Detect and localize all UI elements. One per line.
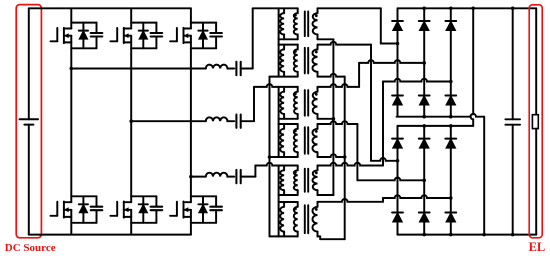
transistor Q2 (MOSFET with gate at left) (51, 196, 72, 223)
capacitor across Q5 (210, 23, 222, 49)
transformer T4 core (305, 127, 308, 154)
inductor L2 (phase B) (206, 117, 228, 121)
wire — phase A output rail (71, 68, 206, 70)
transformer T6 secondary winding (312, 202, 317, 236)
node bridge1 negative bus joints (422, 115, 452, 119)
wire — phase B into primary (254, 84, 279, 87)
wire — bridge 2 AC input a (371, 158, 398, 161)
node phase C (189, 175, 193, 179)
capacitor across Q6 (210, 196, 222, 223)
transformer T5 core (305, 169, 308, 192)
transformer T2 secondary winding (312, 45, 317, 77)
wire — Q5 source rail (191, 47, 216, 49)
wire — leg 1 source connection to DC- (70, 223, 72, 235)
wire — T3/T4 primary series link (278, 119, 280, 124)
wire — T2 primary return (270, 76, 279, 78)
wire — bridge 2 AC input b (357, 178, 424, 181)
DC source boundary (red box) (16, 5, 41, 238)
electrolyzer load EL (532, 8, 538, 234)
wire — Q2 source rail (71, 222, 96, 224)
transformer T3 secondary winding (313, 87, 318, 119)
transistor Q6 (MOSFET with gate at left) (170, 196, 191, 223)
wire — T5 secondary bottom (318, 194, 334, 196)
wire — T3 secondary bottom (318, 118, 334, 120)
wire — Q5 drain rail (191, 22, 216, 24)
transformer T1 primary winding (two parallel columns) (279, 8, 298, 39)
transistor Q5 (MOSFET with gate at left) (170, 23, 191, 49)
body diode of Q3 (139, 23, 148, 49)
inductor L1 (phase A) (206, 65, 228, 69)
capacitor across Q2 (91, 196, 103, 223)
wire — bridge1 negative downlink (483, 117, 485, 235)
wire — T4 output downlink (356, 124, 358, 180)
wire — bridge 2 AC input c (383, 195, 451, 198)
node bridge1 top bus taps (422, 7, 514, 11)
wire — L3 to C3 (227, 176, 234, 178)
node bridge2 positive bus taps (422, 124, 452, 128)
capacitor across Q1 (91, 23, 103, 49)
transistor Q3 (MOSFET with gate at left) (110, 23, 131, 49)
svg-text:DC Source: DC Source (5, 242, 56, 254)
wire — phase leg A midpoint vertical (70, 48, 72, 196)
wire — phase leg C midpoint vertical (190, 48, 192, 196)
wire — T1 secondary bottom (318, 38, 334, 40)
wire — T3 output riser (358, 63, 360, 87)
wire — T6 secondary top (318, 198, 384, 202)
transformer T1 secondary winding (313, 8, 318, 39)
wire — T4 secondary bottom (318, 154, 345, 157)
diode D12 (bridge 2 bottom row) (445, 213, 456, 235)
diode D6 (bridge 1 bottom row) (445, 96, 456, 117)
wire — Q6 source rail (191, 222, 216, 224)
wire — output DC+ bus (398, 7, 537, 9)
node bridge1 leg2 AC (422, 61, 426, 65)
diode D1 (bridge 1 top row) (392, 8, 403, 95)
wire — T1/T2 primary series link (278, 39, 280, 44)
wire — Q4 drain rail (131, 195, 156, 197)
node bridge2 leg1 AC (396, 159, 400, 163)
transformer T6 core (305, 205, 308, 233)
wire — phase A to transformer (241, 68, 253, 70)
wire — Q2 drain rail (71, 195, 96, 197)
transformer T6 primary winding (two parallel columns) (279, 202, 298, 236)
body diode of Q4 (139, 196, 148, 223)
wire — T2 secondary bottom (318, 74, 345, 77)
capacitor across Q4 (151, 196, 163, 223)
node bridge2 leg2 AC (422, 179, 426, 183)
wire — phase B riser (253, 87, 255, 121)
diode D7 (bridge 2 top row) (392, 126, 403, 213)
wire — T5 output riser (382, 82, 384, 166)
capacitor C1 (series resonant, phase A) (236, 62, 240, 75)
capacitor C2 (series resonant, phase B) (236, 115, 240, 128)
wire — T6 secondary bottom (318, 236, 345, 239)
wire — L2 to C2 (227, 120, 234, 122)
transformer T3 primary winding (two parallel columns) (279, 87, 298, 119)
inductor L3 (phase C) (206, 173, 228, 177)
wire — L1 to C1 (227, 68, 234, 70)
diode D2 (bridge 1 bottom row) (392, 96, 403, 117)
wire — T4 secondary top (318, 121, 358, 124)
wire — Q4 source rail (131, 222, 156, 224)
node bridge1 leg3 AC (449, 80, 453, 84)
wire — phase B to transformer (241, 120, 254, 122)
node bridge1 leg1 AC (396, 42, 400, 46)
wire — primary neutral bus (269, 77, 271, 237)
wire — DC+ top bus (29, 7, 191, 9)
wire — phase A into primary (253, 7, 279, 9)
wire — Q1 source rail (71, 47, 96, 49)
wire — phase A riser (252, 8, 254, 68)
wire — DC+ to bridge2 positive link (471, 8, 474, 126)
wire — leg 3 drain connection to DC+ (190, 8, 192, 22)
capacitor across Q3 (151, 23, 163, 49)
wire — leg 1 drain connection to DC+ (70, 8, 72, 22)
wire — bridge 1 negative bus (397, 114, 485, 117)
wire — leg 2 drain connection to DC+ (130, 8, 132, 22)
wire — phase C output rail (191, 176, 206, 178)
diode D10 (bridge 2 bottom row) (419, 213, 430, 235)
wire — bridge 2 positive bus (398, 125, 474, 127)
wire — T1 secondary top to rectifier (318, 7, 381, 9)
node phase A (70, 67, 74, 71)
body diode of Q6 (198, 196, 207, 223)
node output DC- bus joints (422, 233, 514, 237)
wire — phase leg B midpoint vertical (130, 48, 132, 196)
EL load boundary (red box) (529, 5, 542, 238)
wire — leg 3 source connection to DC- (190, 223, 192, 235)
wire — T2 secondary top (318, 42, 372, 45)
wire — secondary neutral bus 1 (332, 39, 334, 195)
body diode of Q2 (79, 196, 88, 223)
wire — Q3 source rail (131, 47, 156, 49)
transformer T5 secondary winding (313, 166, 318, 196)
transformer T3 core (305, 90, 308, 116)
wire — T5/T6 primary series link (278, 195, 280, 202)
wire — Q1 drain rail (71, 22, 96, 24)
wire — T6 primary return (270, 235, 279, 237)
wire — T1 output riser (380, 8, 382, 43)
capacitor C3 (series resonant, phase C) (236, 170, 240, 183)
svg-text:EL: EL (529, 240, 546, 254)
label EL (529, 240, 546, 254)
wire — leg 2 source connection to DC- (130, 223, 132, 235)
body diode of Q5 (198, 23, 207, 49)
transformer T2 primary winding (two parallel columns) (279, 45, 298, 77)
wire — T5 secondary top (318, 163, 384, 166)
wire — bridge 1 AC input a (381, 43, 398, 45)
diode D8 (bridge 2 bottom row) (392, 213, 403, 235)
wire — bridge 1 AC input c (383, 79, 451, 82)
diode D9 (bridge 2 top row) (419, 126, 430, 213)
capacitor Co (output filter) (505, 8, 520, 234)
wire — phase C into primary (255, 163, 278, 166)
transformer T2 core (305, 48, 308, 74)
node phase B (129, 119, 133, 123)
wire — secondary neutral bus 2 (344, 77, 346, 240)
wire — phase C to transformer (241, 176, 256, 178)
transistor Q4 (MOSFET with gate at left) (110, 196, 131, 223)
diode D3 (bridge 1 top row) (419, 8, 430, 95)
diode D4 (bridge 1 bottom row) (419, 96, 430, 117)
wire — T4 primary return (270, 156, 279, 158)
node bridge2 leg3 AC (449, 196, 453, 200)
transformer T5 primary winding (two parallel columns) (279, 166, 298, 196)
wire — DC- bottom bus (29, 234, 191, 236)
wire — phase C riser (254, 166, 256, 177)
transformer T4 secondary winding (313, 124, 318, 157)
transistor Q1 (MOSFET with gate at left) (51, 23, 72, 49)
wire — bridge 1 AC input b (359, 60, 424, 63)
node primary neutral / T4 return (268, 155, 272, 159)
transformer T4 primary winding (two parallel columns) (279, 124, 298, 157)
wire — T3 secondary top (318, 84, 360, 87)
diode D11 (bridge 2 top row) (445, 126, 456, 213)
node T3 secondary return (332, 117, 336, 121)
wire — T2 output downlink (370, 45, 372, 161)
wire — Q3 drain rail (131, 22, 156, 24)
node T4 secondary return (343, 155, 347, 159)
diode D5 (bridge 1 top row) (445, 8, 456, 95)
battery V1 (DC source) (20, 8, 38, 234)
label DC Source (5, 242, 56, 254)
wire — phase B output rail (131, 120, 206, 122)
transformer T1 core (305, 12, 308, 37)
body diode of Q1 (79, 23, 88, 49)
wire — output DC- bus (398, 234, 537, 236)
wire — Q6 drain rail (191, 195, 216, 197)
